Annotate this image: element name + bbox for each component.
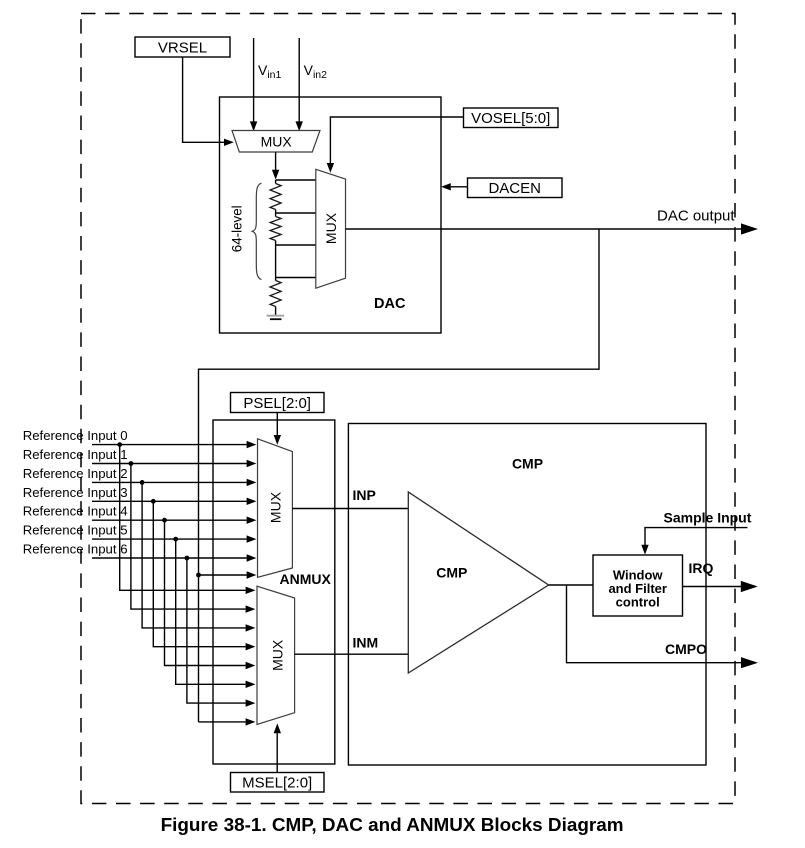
svg-text:Reference Input 0: Reference Input 0: [23, 428, 128, 443]
node feedback junction dot: [196, 573, 201, 578]
svg-text:CMP: CMP: [436, 564, 467, 580]
wire INP MUX3 to comparator: [292, 508, 408, 510]
resistor R1 (64-level ladder): [270, 180, 281, 213]
wire comparator output to window/filter: [549, 584, 593, 586]
wire feedback to MUX3 input 8: [199, 571, 257, 578]
wire Reference Input 3 to MUX3: [92, 498, 256, 505]
svg-text:64-level: 64-level: [230, 205, 245, 252]
svg-text:PSEL[2:0]: PSEL[2:0]: [243, 395, 311, 412]
wire Reference Input 4 branch to MUX4: [165, 520, 256, 669]
svg-text:Figure 38-1. CMP, DAC and ANMU: Figure 38-1. CMP, DAC and ANMUX Blocks D…: [161, 815, 624, 836]
CMP block box: [348, 424, 706, 766]
svg-text:CMPO: CMPO: [665, 641, 707, 657]
MSEL[2:0] control box: [231, 773, 325, 793]
svg-text:Reference Input 3: Reference Input 3: [23, 485, 128, 500]
wire Reference Input 2 to MUX3: [92, 479, 256, 486]
wire Reference Input 3 branch to MUX4: [153, 501, 255, 650]
ladder tap wire 2: [276, 212, 316, 214]
mux U4 ANMUX minus-input MUX (trapezoid): [257, 586, 295, 724]
ANMUX block box: [213, 420, 335, 764]
DAC block box: [220, 97, 442, 333]
svg-text:MUX: MUX: [261, 134, 293, 150]
ladder tap wire 4: [276, 277, 316, 279]
ground symbol: [267, 315, 285, 320]
wire IRQ output: [683, 581, 758, 592]
svg-text:Reference Input 2: Reference Input 2: [23, 466, 128, 481]
svg-text:INP: INP: [353, 487, 376, 503]
64-level brace: [252, 183, 261, 279]
Window and Filter control box: [593, 555, 683, 616]
Vin1 input wire: [250, 38, 257, 131]
wire DAC output feedback to ANMUX: [199, 229, 600, 722]
node junction dot input 1: [129, 461, 134, 466]
wire VOSEL to MUX2 select: [327, 117, 464, 173]
node junction dot input 2: [140, 480, 145, 485]
svg-text:MUX: MUX: [270, 639, 286, 671]
node CMPO branch: [567, 585, 742, 663]
wire MUX1 output to resistor ladder: [272, 152, 279, 180]
Vin2 label: [304, 62, 328, 81]
wire Reference Input 2 branch to MUX4: [142, 482, 255, 631]
svg-text:INM: INM: [353, 634, 379, 650]
wire Reference Input 0 branch to MUX4: [120, 445, 256, 594]
wire INM MUX4 to comparator: [295, 653, 409, 655]
VRSEL control box: [135, 37, 230, 57]
wire Sample Input to window/filter: [641, 528, 747, 555]
svg-text:DAC: DAC: [374, 296, 406, 312]
DAC output wire: [346, 223, 759, 234]
wire DACEN to DAC block: [441, 183, 468, 190]
svg-text:MSEL[2:0]: MSEL[2:0]: [242, 774, 312, 791]
wire PSEL to MUX3 select: [274, 413, 281, 445]
resistor R3 (ladder bottom): [270, 278, 281, 316]
svg-text:ANMUX: ANMUX: [280, 571, 332, 587]
mux U3 ANMUX plus-input MUX (trapezoid): [258, 439, 293, 578]
mux U1 input-select MUX (trapezoid): [232, 131, 320, 153]
svg-text:Reference Input 4: Reference Input 4: [23, 504, 128, 519]
wire Reference Input 6 to MUX3: [92, 554, 256, 561]
ladder tap wire 3: [276, 244, 316, 246]
svg-text:Reference Input 1: Reference Input 1: [23, 447, 128, 462]
wire Reference Input 6 branch to MUX4: [187, 558, 256, 707]
wire VRSEL to MUX1 select: [183, 57, 234, 146]
svg-text:control: control: [616, 594, 660, 609]
node junction dot input 3: [151, 499, 156, 504]
DACEN control box: [468, 178, 563, 198]
node junction dot input 4: [162, 518, 167, 523]
wire ladder mid segment: [275, 245, 277, 278]
wire Reference Input 1 to MUX3: [92, 460, 256, 467]
dashed module boundary: [81, 14, 735, 804]
svg-text:Reference Input 5: Reference Input 5: [23, 523, 128, 538]
wire Reference Input 1 branch to MUX4: [131, 464, 256, 613]
wire feedback to MUX4 input 8: [199, 718, 256, 725]
wire Reference Input 5 branch to MUX4: [176, 539, 256, 688]
resistor R2 (64-level ladder): [270, 213, 281, 245]
wire Reference Input 0 to MUX3: [92, 441, 256, 448]
svg-text:Reference Input 6: Reference Input 6: [23, 542, 128, 557]
op-amp comparator CMP (triangle): [408, 492, 548, 673]
ladder tap wire 1: [276, 179, 316, 181]
svg-text:VOSEL[5:0]: VOSEL[5:0]: [471, 110, 550, 127]
svg-text:IRQ: IRQ: [689, 560, 714, 576]
node junction dot input 5: [173, 537, 178, 542]
svg-text:DAC output: DAC output: [657, 208, 735, 225]
svg-text:VRSEL: VRSEL: [158, 39, 207, 56]
wire MSEL to MUX4 select: [274, 723, 281, 772]
node junction dot input 0: [117, 442, 122, 447]
Vin2 input wire: [296, 38, 303, 131]
PSEL[2:0] control box: [231, 393, 325, 413]
svg-text:Sample Input: Sample Input: [664, 510, 752, 526]
wire Reference Input 4 to MUX3: [92, 517, 256, 524]
VOSEL[5:0] control box: [464, 108, 559, 128]
svg-text:MUX: MUX: [323, 212, 339, 244]
svg-text:MUX: MUX: [268, 491, 284, 523]
Vin1 label: [258, 62, 282, 81]
CMPO output arrowhead: [741, 657, 758, 668]
wire Reference Input 5 to MUX3: [92, 535, 256, 542]
svg-text:CMP: CMP: [512, 455, 543, 471]
svg-text:DACEN: DACEN: [488, 180, 541, 197]
mux U2 DAC output MUX (trapezoid): [316, 169, 346, 288]
node junction dot input 6: [185, 556, 190, 561]
